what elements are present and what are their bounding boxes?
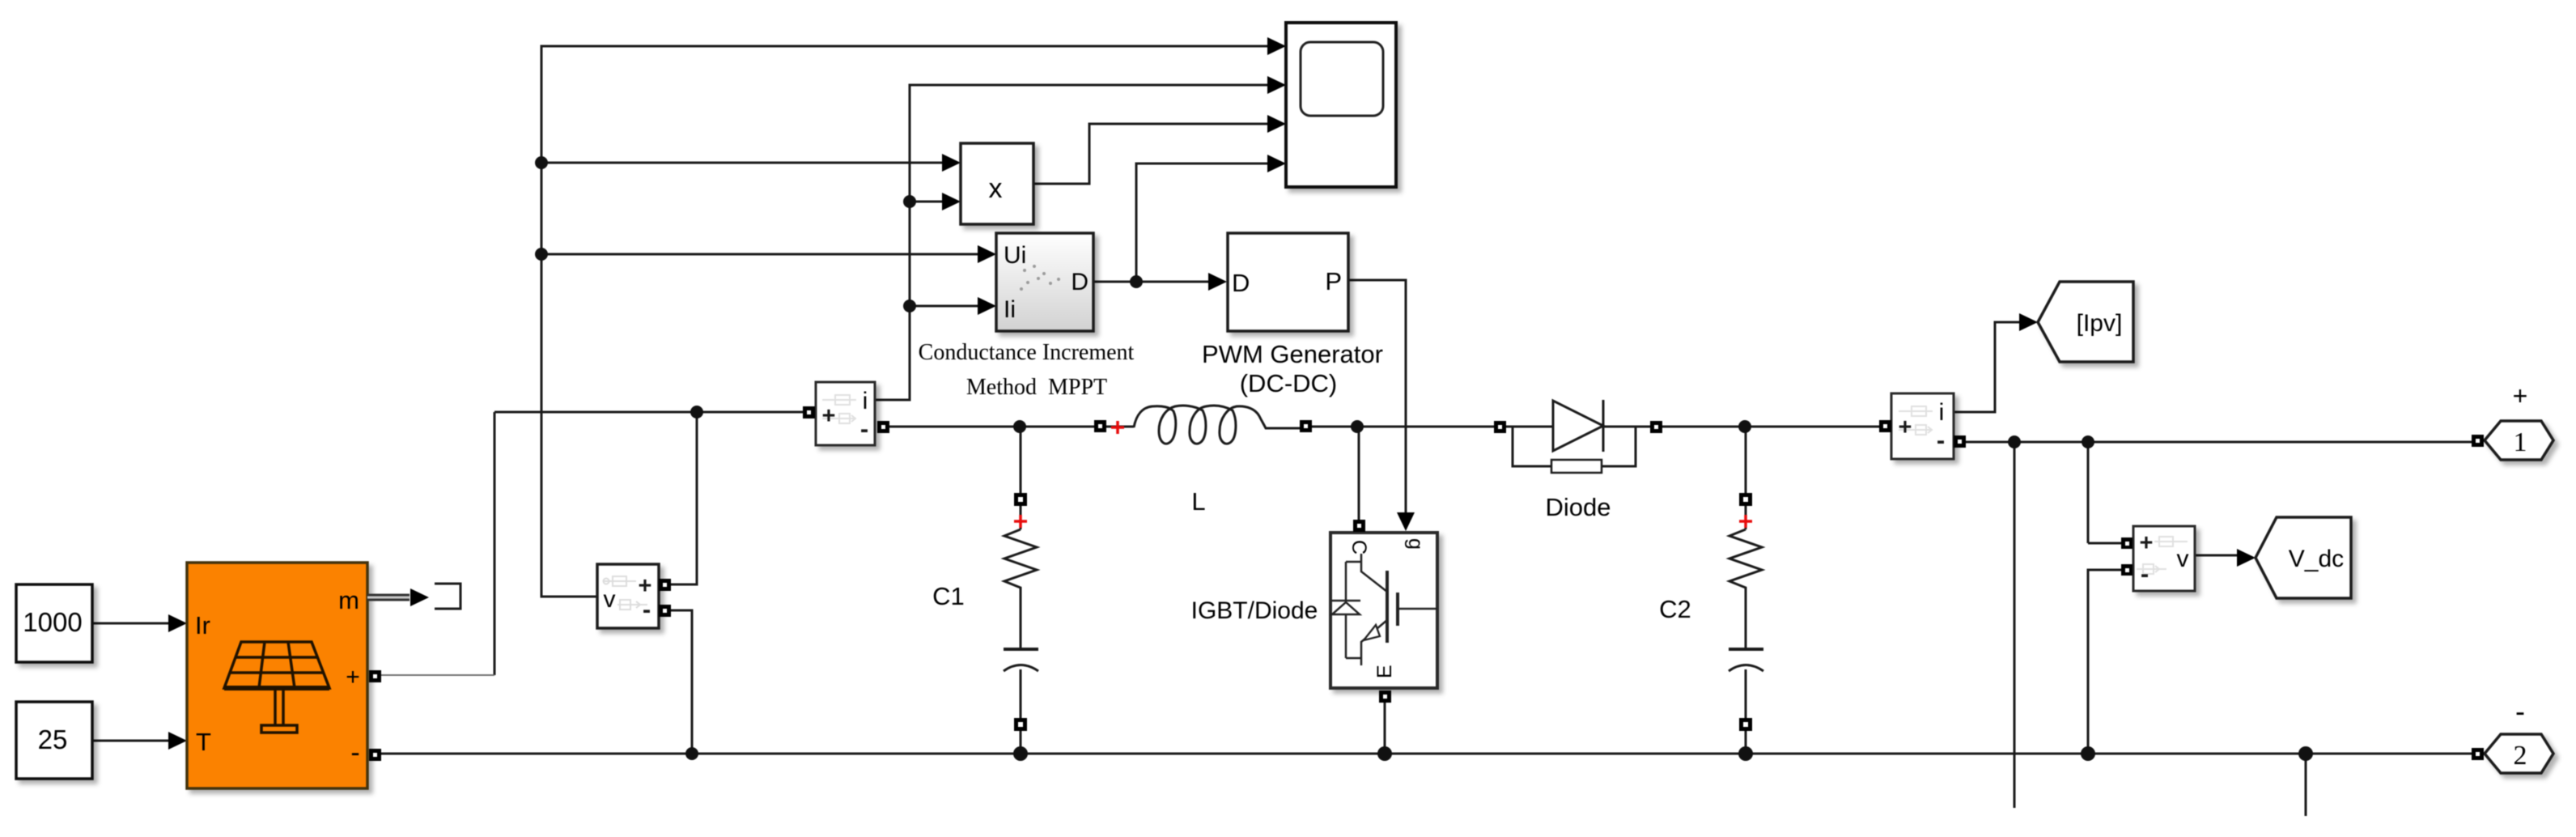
svg-text:1: 1 bbox=[2514, 427, 2527, 457]
svg-text:i: i bbox=[863, 388, 868, 414]
svg-text:1000: 1000 bbox=[23, 607, 82, 637]
svg-text:2: 2 bbox=[2514, 741, 2527, 771]
svg-text:PWM Generator: PWM Generator bbox=[1202, 340, 1383, 368]
svg-text:v: v bbox=[2177, 546, 2189, 572]
svg-text:-: - bbox=[860, 414, 868, 443]
svg-text:+: + bbox=[2513, 381, 2528, 410]
svg-text:Ir: Ir bbox=[195, 611, 210, 639]
svg-text:+: + bbox=[1899, 414, 1912, 440]
svg-text:i: i bbox=[1939, 399, 1945, 426]
svg-text:C2: C2 bbox=[1659, 595, 1691, 623]
svg-text:-: - bbox=[2141, 559, 2149, 588]
svg-text:Conductance Increment: Conductance Increment bbox=[919, 340, 1135, 365]
svg-text:Diode: Diode bbox=[1546, 493, 1611, 521]
svg-text:-: - bbox=[2515, 695, 2525, 728]
svg-text:25: 25 bbox=[38, 724, 68, 754]
svg-text:E: E bbox=[1373, 665, 1396, 678]
svg-text:g: g bbox=[1404, 538, 1427, 550]
svg-text:Method MPPT: Method MPPT bbox=[966, 375, 1107, 400]
svg-text:(DC-DC): (DC-DC) bbox=[1240, 369, 1338, 397]
svg-text:D: D bbox=[1232, 269, 1250, 297]
svg-text:T: T bbox=[196, 728, 211, 756]
svg-text:m: m bbox=[338, 586, 359, 614]
svg-text:IGBT/Diode: IGBT/Diode bbox=[1191, 597, 1318, 624]
svg-text:+: + bbox=[346, 664, 360, 690]
svg-text:P: P bbox=[1325, 267, 1342, 295]
svg-text:x: x bbox=[989, 173, 1003, 204]
svg-text:Ui: Ui bbox=[1004, 242, 1026, 269]
svg-text:-: - bbox=[643, 595, 651, 623]
svg-text:D: D bbox=[1071, 269, 1089, 295]
svg-text:L: L bbox=[1191, 487, 1205, 516]
svg-text:[Ipv]: [Ipv] bbox=[2077, 310, 2123, 337]
svg-text:+: + bbox=[2140, 530, 2154, 556]
svg-text:-: - bbox=[1937, 426, 1945, 454]
svg-text:V_dc: V_dc bbox=[2289, 546, 2344, 572]
svg-text:-: - bbox=[350, 737, 359, 768]
svg-text:C1: C1 bbox=[932, 582, 965, 610]
svg-text:C: C bbox=[1347, 540, 1370, 554]
svg-text:Ii: Ii bbox=[1004, 296, 1016, 323]
svg-text:v: v bbox=[604, 586, 616, 613]
svg-text:+: + bbox=[822, 403, 836, 429]
